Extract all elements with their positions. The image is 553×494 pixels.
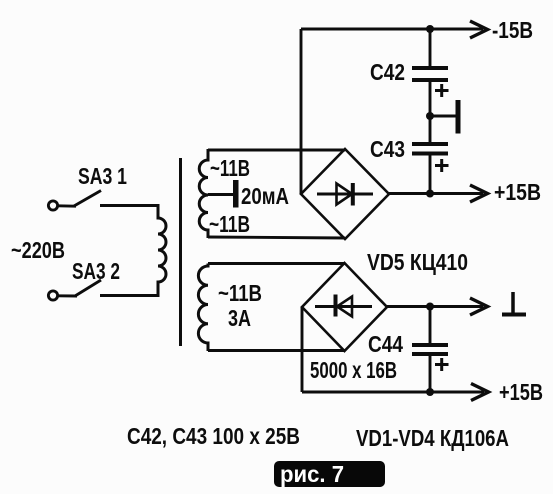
wire: winding II top to bridge AC input	[208, 149, 345, 152]
svg-text:5000 x 16В: 5000 x 16В	[310, 357, 397, 383]
center tap terminal of winding II	[208, 180, 239, 208]
wire: VD5 minus output down	[301, 307, 304, 392]
capacitor C43	[412, 116, 448, 194]
wire: bridge minus output up to -15В rail	[300, 29, 303, 194]
svg-text:~11В: ~11В	[218, 280, 262, 306]
wire: -15В rail	[301, 28, 483, 31]
wire: +15В rail top	[389, 192, 483, 195]
transformer T1 primary winding	[158, 204, 166, 297]
transformer T1 secondary winding III	[198, 264, 208, 352]
svg-text:SA3 2: SA3 2	[72, 258, 120, 284]
arrow -15В output	[470, 21, 488, 38]
capacitor C44	[412, 307, 448, 393]
wire: winding II bottom to bridge AC input	[208, 237, 345, 238]
wire: SA3.2 to primary bottom	[100, 294, 158, 297]
caption box рис. 7	[274, 461, 385, 487]
plus mark C43	[435, 159, 449, 172]
ground symbol	[502, 292, 526, 315]
bridge rectifier VD1-VD4	[301, 149, 389, 239]
arrow +15В output bottom	[471, 384, 489, 401]
capacitor C42	[412, 29, 448, 116]
svg-text:VD5 КЦ410: VD5 КЦ410	[367, 249, 468, 275]
junction between C42 and C43	[426, 112, 434, 120]
svg-text:3А: 3А	[228, 305, 251, 331]
arrow +15В output top	[470, 185, 488, 202]
wire: SA3.1 to primary top	[100, 204, 158, 207]
wire: VD5 plus output to common	[387, 305, 483, 308]
wire: +15В rail bottom	[302, 391, 484, 394]
junction at C44 bottom	[426, 388, 434, 396]
svg-text:SA3 1: SA3 1	[78, 163, 127, 189]
transformer T1 secondary winding II	[199, 149, 208, 238]
arrow common output	[470, 298, 488, 315]
transformer T1 core	[179, 158, 182, 346]
svg-text:рис. 7: рис. 7	[280, 461, 344, 487]
wire: winding III top to bridge VD5	[208, 262, 345, 265]
svg-text:VD1-VD4 КД106А: VD1-VD4 КД106А	[356, 425, 509, 451]
junction at C42 top	[426, 25, 434, 33]
common terminal stub	[430, 100, 461, 134]
svg-text:C43: C43	[370, 136, 405, 162]
junction at C44 top	[426, 303, 434, 311]
svg-text:C42: C42	[370, 59, 405, 85]
svg-text:+15В: +15В	[499, 379, 543, 405]
svg-text:C42, C43 100 x 25В: C42, C43 100 x 25В	[127, 423, 300, 449]
bridge rectifier VD5	[302, 263, 387, 351]
svg-text:-15В: -15В	[492, 17, 533, 43]
wire: winding III bottom to bridge VD5	[208, 349, 345, 352]
svg-text:~11В: ~11В	[209, 211, 250, 237]
switch SA3.2	[48, 280, 101, 300]
svg-text:20мА: 20мА	[241, 183, 289, 209]
plus mark C44	[435, 358, 449, 371]
svg-text:C44: C44	[368, 331, 403, 357]
diode symbol inside VD1-VD4	[317, 183, 373, 206]
switch SA3.1	[48, 191, 101, 211]
plus mark C42	[435, 84, 449, 97]
diode symbol inside VD5	[315, 295, 372, 317]
svg-text:+15В: +15В	[494, 179, 541, 205]
svg-text:~220В: ~220В	[11, 237, 65, 263]
junction at C43 bottom	[426, 190, 434, 198]
svg-text:~11В: ~11В	[210, 155, 250, 181]
